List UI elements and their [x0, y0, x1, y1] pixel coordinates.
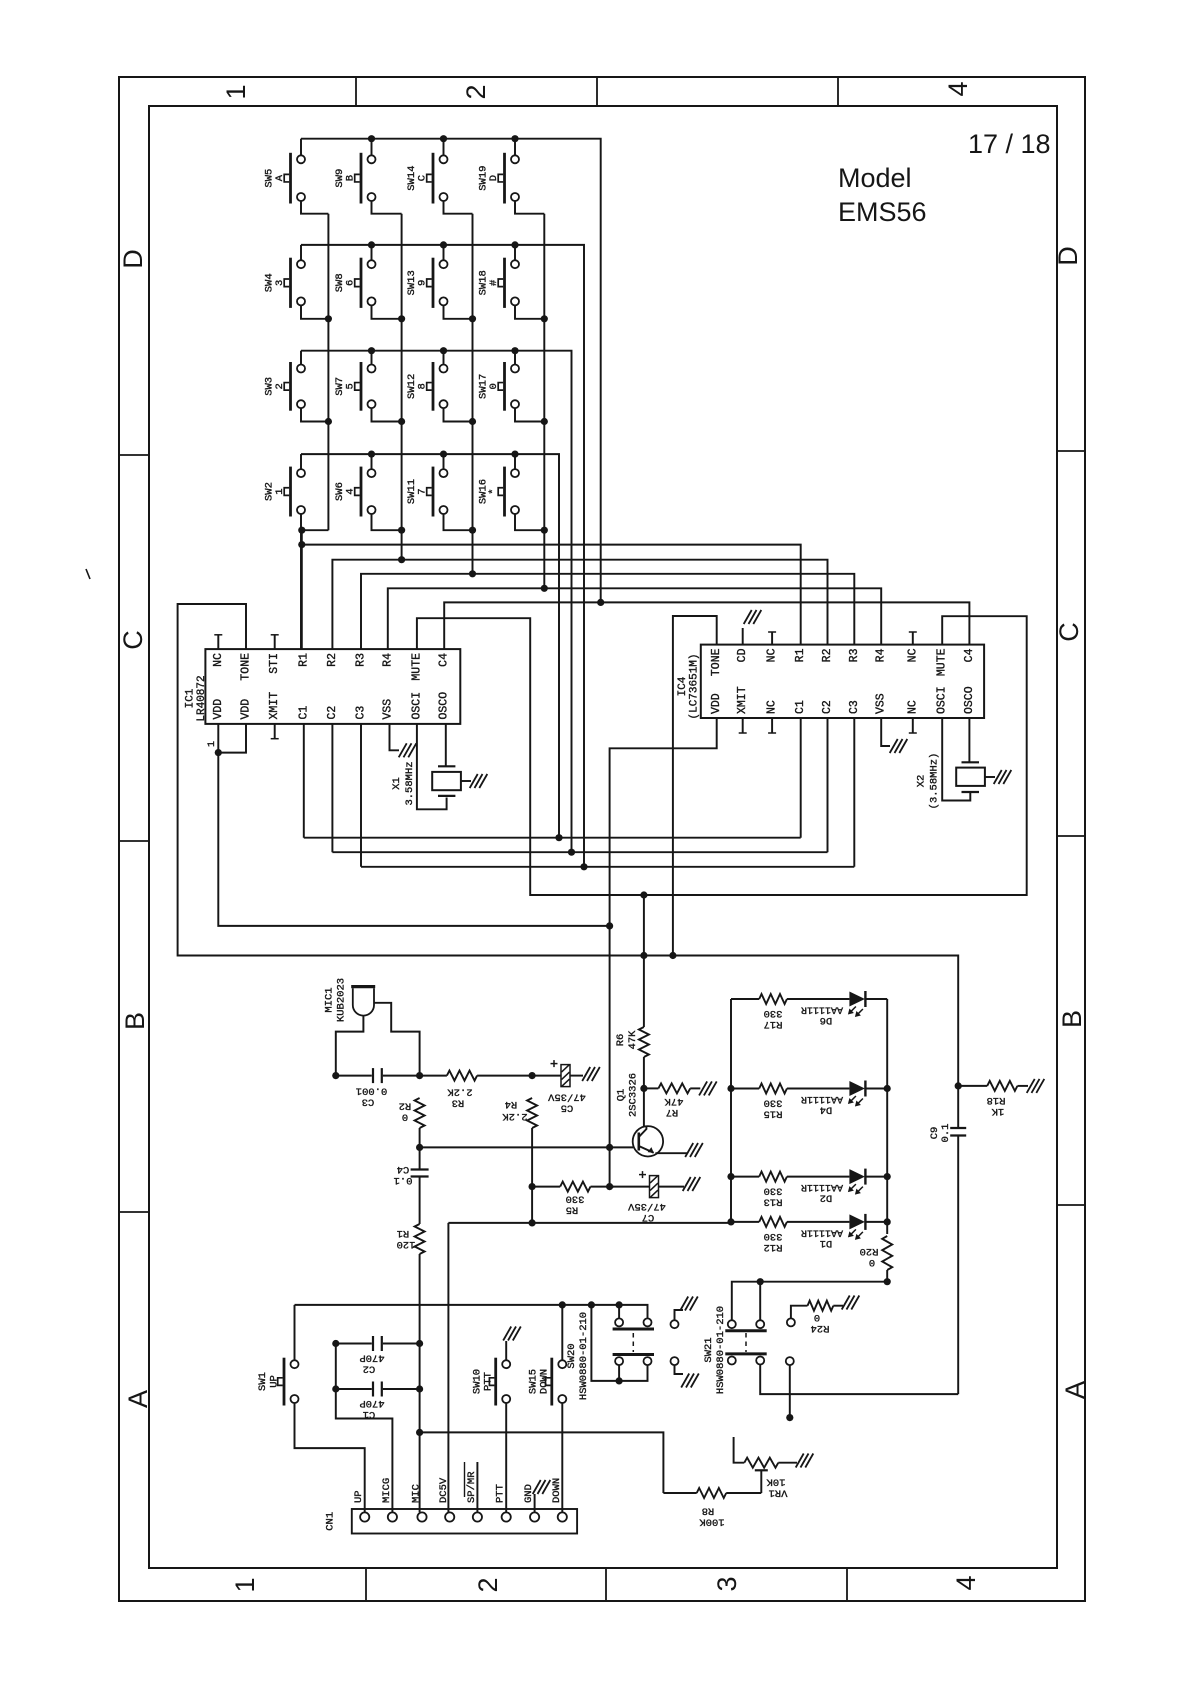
svg-text:UP: UP — [269, 1375, 281, 1388]
svg-text:R4: R4 — [505, 1098, 518, 1110]
svg-text:0.1: 0.1 — [940, 1124, 952, 1143]
wire SP/MR stub — [476, 1462, 478, 1512]
ground C5 — [582, 1067, 590, 1081]
svg-text:R1: R1 — [794, 648, 807, 662]
SP/MR overline — [464, 1462, 466, 1497]
wire SW11 top stub — [443, 454, 445, 469]
wire DC5V down to CN1 — [447, 1223, 449, 1512]
wire SW16 top stub — [514, 454, 516, 469]
connector CN1 body — [352, 1509, 577, 1534]
wire SW8 bottom jog — [372, 306, 402, 319]
SW20 gang link — [632, 1333, 634, 1352]
node C4 bus row1 drop — [597, 599, 604, 606]
node C1 left — [332, 1385, 339, 1392]
wire IC1 VDD pin1 down — [218, 724, 609, 926]
node col2 chain 530 — [398, 527, 405, 534]
node base R2 junction — [416, 1144, 423, 1151]
svg-text:330: 330 — [764, 1230, 783, 1242]
zone tick bottom 3/4 — [846, 1568, 848, 1601]
switch SW14 key C — [440, 155, 448, 163]
node SW12 row bus junction — [440, 347, 447, 354]
wire R1 to CN1 MIC pin — [419, 1254, 421, 1512]
wire SW12 bottom jog — [444, 409, 473, 422]
resistor R6 47K — [643, 895, 645, 1027]
node R4 bus col4 — [541, 585, 548, 592]
node R5 C7 junction — [606, 1183, 613, 1190]
wire R1 bus keypad to IC4 — [302, 545, 801, 645]
wire IC1 C2 leg — [331, 724, 333, 852]
svg-text:5: 5 — [345, 383, 357, 389]
wire IC1 OSCI to X1 — [417, 724, 447, 809]
svg-text:C4: C4 — [963, 648, 976, 662]
ground CN1 GND — [533, 1480, 541, 1494]
node cathode rail — [884, 1218, 891, 1225]
wire DC5V rail to diode row — [448, 1222, 731, 1224]
svg-text:AA1111R: AA1111R — [801, 1004, 843, 1015]
svg-text:A: A — [1060, 1381, 1090, 1399]
svg-text:SP/MR: SP/MR — [466, 1471, 478, 1503]
ground IC1 VSS — [399, 743, 407, 757]
wire SW20 UL stub — [618, 1305, 620, 1318]
node SW13 row bus junction — [440, 241, 447, 248]
wire SW13 bottom jog — [444, 306, 473, 319]
svg-text:VDD: VDD — [240, 699, 253, 720]
svg-text:R3: R3 — [355, 653, 368, 667]
wire R2 bus IC1 to IC4 — [332, 560, 827, 649]
capacitor C4 0.1 — [411, 1168, 429, 1170]
svg-text:NC: NC — [212, 653, 225, 667]
svg-text:X2: X2 — [916, 775, 928, 788]
svg-text:C3: C3 — [355, 706, 368, 720]
node cathode rail — [884, 1085, 891, 1092]
ground SW10 — [503, 1327, 511, 1341]
svg-text:8: 8 — [417, 383, 429, 389]
switch SW17 key 0 — [511, 365, 519, 373]
resistor R18 1K — [958, 1085, 987, 1087]
resistor R1 120 — [415, 1224, 425, 1254]
CN1 pin UP — [360, 1512, 369, 1521]
wire SW12 top stub — [443, 351, 445, 365]
svg-text:IC4: IC4 — [677, 676, 689, 696]
resistor R17 330 — [731, 998, 759, 1000]
wire IC4 C1 leg — [800, 718, 802, 838]
svg-text:470P: 470P — [359, 1397, 384, 1409]
svg-text:R6: R6 — [615, 1034, 627, 1047]
svg-text:IC1: IC1 — [185, 688, 197, 708]
wire IC1 VSS ground stub — [390, 724, 400, 750]
svg-text:R5: R5 — [566, 1204, 579, 1216]
svg-text:1: 1 — [221, 84, 251, 99]
switch SW9 key B — [368, 155, 376, 163]
wire SW11 bottom jog — [444, 514, 473, 530]
node SW20 bottom rail — [616, 1377, 623, 1384]
svg-text:7: 7 — [417, 488, 429, 494]
wire column 4 chain — [543, 214, 545, 531]
wire X1 case ground — [461, 780, 471, 782]
svg-text:(LC73651M): (LC73651M) — [689, 653, 701, 719]
svg-text:3.58MHz: 3.58MHz — [404, 761, 416, 805]
wire SW7 bottom jog — [372, 409, 402, 422]
node MUTE bus R6 branch — [640, 891, 647, 898]
node col1 R1 bus tee — [298, 541, 305, 548]
wire SW19 top stub — [514, 139, 516, 155]
svg-text:2: 2 — [473, 1577, 503, 1592]
svg-text:MIC1: MIC1 — [324, 987, 336, 1012]
svg-text:C: C — [417, 175, 429, 181]
wire col3 chain to R3 bus — [472, 530, 474, 574]
wire MIC1 right terminal — [374, 1003, 420, 1076]
svg-text:B: B — [120, 1012, 150, 1030]
switch SW21 NC contact upper to R24 — [787, 1318, 795, 1326]
wire col4 chain to R4 bus — [543, 530, 545, 588]
VR1 wiper — [755, 1469, 768, 1471]
wire SW1 bottom to CN1 UP — [295, 1403, 365, 1512]
svg-text:100K: 100K — [699, 1516, 725, 1528]
zone tick top 1/2 — [355, 77, 357, 106]
svg-text:VDD: VDD — [212, 699, 225, 720]
wire IC4 OSCI to X2 — [942, 718, 970, 801]
svg-text:2.2K: 2.2K — [447, 1086, 473, 1098]
wire col1 chain jog — [301, 529, 328, 531]
switch SW6 key 4 — [368, 469, 376, 477]
svg-text:0: 0 — [402, 1111, 408, 1123]
svg-text:C1: C1 — [297, 706, 310, 720]
wire SW13 top stub — [443, 245, 445, 260]
ground R18 — [1027, 1079, 1035, 1093]
switch SW2 key 1 — [297, 469, 305, 477]
node anode rail — [727, 1173, 734, 1180]
switch SW4 key 3 — [297, 260, 305, 268]
svg-text:2: 2 — [461, 84, 491, 99]
switch SW11 key 7 — [440, 469, 448, 477]
capacitor C9 0.1 — [957, 1086, 959, 1128]
svg-text:B: B — [345, 175, 357, 181]
ground R24 — [842, 1296, 850, 1310]
svg-text:OSCI: OSCI — [410, 692, 423, 720]
node col3 chain 530 — [469, 527, 476, 534]
svg-text:AA1111R: AA1111R — [801, 1226, 843, 1237]
svg-text:#: # — [488, 280, 500, 286]
IC4 pin NC2 bottom stub — [912, 718, 914, 733]
wire IC4 C3 leg — [853, 718, 855, 867]
potentiometer VR1 10K — [734, 1437, 745, 1463]
svg-text:VSS: VSS — [381, 699, 394, 720]
svg-text:MICG: MICG — [381, 1478, 393, 1503]
wire R5 node line — [532, 1186, 560, 1188]
node R4 D1 row junction — [529, 1219, 536, 1226]
svg-text:C3: C3 — [362, 1096, 375, 1108]
svg-text:CN1: CN1 — [325, 1512, 337, 1531]
svg-text:R8: R8 — [702, 1505, 715, 1517]
node C1 right — [416, 1385, 423, 1392]
node VDD bus vertical tee — [606, 922, 613, 929]
node C3 bus row2 drop — [580, 863, 587, 870]
svg-text:PTT: PTT — [495, 1484, 507, 1503]
svg-text:MUTE: MUTE — [936, 648, 949, 676]
svg-text:330: 330 — [764, 1097, 783, 1109]
svg-text:1: 1 — [274, 488, 286, 494]
switch SW20 NC contact upper — [671, 1320, 679, 1328]
capacitor C1 470P — [372, 1382, 374, 1397]
switch SW13 key 9 — [440, 260, 448, 268]
op-amp IC1 LR40872 body — [205, 649, 460, 724]
zone tick top 2/3 — [596, 77, 598, 106]
node SW16 row bus junction — [511, 451, 518, 458]
svg-text:R2: R2 — [326, 653, 339, 667]
node SW20 left leg — [588, 1301, 595, 1308]
switch SW18 key # — [511, 260, 519, 268]
wire SW18 bottom jog — [515, 306, 544, 319]
svg-text:SW1: SW1 — [257, 1372, 269, 1391]
node SW21 UR leg — [757, 1278, 764, 1285]
svg-text:CD: CD — [736, 648, 749, 662]
svg-text:330: 330 — [764, 1185, 783, 1197]
svg-text:4: 4 — [345, 488, 357, 494]
node R4 R5 junction — [529, 1183, 536, 1190]
wire SW5 top stub — [300, 139, 302, 155]
wire column 2 chain — [401, 214, 403, 531]
svg-text:C: C — [118, 630, 148, 650]
wire SW17 top stub — [514, 351, 516, 365]
wire Q1 base line — [420, 1146, 634, 1148]
svg-text:470P: 470P — [359, 1352, 384, 1364]
svg-text:UP: UP — [353, 1490, 365, 1503]
wire SW17 bottom jog — [515, 409, 544, 422]
node SW21 NC lower end — [786, 1414, 793, 1421]
svg-text:R3: R3 — [452, 1097, 465, 1109]
node IC1 VDD junction — [215, 749, 222, 756]
node R2 bus col2 — [398, 556, 405, 563]
IC1 pin STI stub — [274, 635, 276, 649]
wire IC1 C1 leg — [303, 724, 305, 838]
node MIC bias tee — [416, 1429, 423, 1436]
switch SW5 key A — [297, 155, 305, 163]
svg-text:C: C — [1054, 622, 1084, 642]
IC4 pin NC2 top stub — [912, 632, 914, 645]
svg-text:SW20: SW20 — [566, 1343, 578, 1368]
node cathode rail — [884, 1173, 891, 1180]
zone tick right B/A — [1057, 1204, 1085, 1206]
svg-text:4: 4 — [951, 1575, 981, 1590]
node R20 bottom — [884, 1278, 891, 1285]
wire SW21 select line — [732, 1282, 887, 1320]
border outer frame — [119, 77, 1085, 1601]
svg-text:DOWN: DOWN — [539, 1369, 551, 1394]
svg-text:TONE: TONE — [240, 653, 253, 681]
switch SW8 key 6 — [368, 260, 376, 268]
wire SW18 top stub — [514, 245, 516, 260]
IC1 pin NC stub — [217, 635, 219, 649]
wire SW20 LL stub — [618, 1365, 620, 1381]
switch SW10 PTT — [502, 1360, 510, 1368]
switch SW20 HSW0880-01-210 upper pole — [615, 1318, 623, 1326]
wire column 1 chain — [327, 214, 329, 531]
svg-text:9: 9 — [417, 280, 429, 286]
svg-text:PTT: PTT — [483, 1372, 495, 1391]
svg-text:R1: R1 — [297, 653, 310, 667]
zone tick top 3/4 — [837, 77, 839, 106]
zone tick right C/B — [1057, 835, 1085, 837]
wire GND pin stub — [534, 1494, 536, 1512]
ground VR1 — [796, 1454, 804, 1468]
svg-text:AA1111R: AA1111R — [801, 1181, 843, 1192]
resistor R2 0 — [415, 1098, 425, 1128]
wire diode cathode rail — [886, 999, 888, 1234]
wire MICG column — [336, 1344, 393, 1513]
zone tick bottom 1/2 — [365, 1568, 367, 1601]
svg-text:R13: R13 — [764, 1196, 783, 1208]
wire SW15 top to bus — [561, 1305, 563, 1360]
resistor R3 2.2K — [447, 1071, 477, 1081]
wire C2 bus below ICs — [332, 851, 827, 853]
svg-text:2.2K: 2.2K — [502, 1110, 528, 1122]
node collector R7 tee — [640, 1085, 647, 1092]
wire R4 to R5 node — [531, 1128, 533, 1223]
wire SW3 bottom jog — [301, 409, 328, 422]
svg-text:R4: R4 — [381, 653, 394, 667]
svg-text:MUTE: MUTE — [410, 653, 423, 681]
svg-text:R2: R2 — [821, 648, 834, 662]
wire SW15 bottom to CN1 DOWN — [561, 1403, 563, 1512]
node SW14 row bus junction — [440, 135, 447, 142]
resistor R12 330 — [731, 1221, 759, 1223]
wire SW10 bottom to CN1 PTT — [505, 1403, 507, 1512]
svg-text:OSCO: OSCO — [963, 686, 976, 714]
node C2 right — [416, 1340, 423, 1347]
svg-text:17 / 18: 17 / 18 — [968, 129, 1051, 159]
svg-text:4: 4 — [943, 81, 973, 96]
node R3 bus col3 — [469, 570, 476, 577]
zone tick left B/A — [119, 1211, 149, 1213]
svg-text:1K: 1K — [991, 1105, 1004, 1117]
node anode rail — [727, 1218, 734, 1225]
wire SW8 top stub — [371, 245, 373, 260]
wire col2 chain to R2 bus — [401, 530, 403, 560]
ground C7 — [683, 1177, 691, 1191]
svg-text:D: D — [118, 249, 148, 269]
node SW15 top — [559, 1301, 566, 1308]
node MICG C3 left — [332, 1072, 339, 1079]
svg-text:Q1: Q1 — [616, 1089, 628, 1102]
wire MIC bias line — [420, 1432, 664, 1493]
svg-text:C1: C1 — [794, 700, 807, 714]
transistor Q1 2SC3326 — [633, 1126, 663, 1156]
svg-text:VSS: VSS — [875, 693, 888, 714]
CN1 pin DC5V — [445, 1512, 454, 1521]
svg-text:X1: X1 — [391, 777, 403, 790]
wire IC1 C3 leg — [360, 724, 362, 867]
svg-text:NC: NC — [906, 700, 919, 714]
svg-text:DC5V: DC5V — [438, 1477, 450, 1503]
wire SW5 bottom jog — [301, 201, 328, 213]
switch SW7 key 5 — [368, 365, 376, 373]
keypad row bus 3 — [301, 351, 572, 853]
switch SW21 NC contact lower — [786, 1357, 794, 1365]
resistor R24 0 — [808, 1301, 834, 1311]
wire IC4 OSCO to X2 — [968, 718, 970, 762]
wire audio node C3/R3 — [336, 1075, 372, 1077]
svg-text:NC: NC — [766, 700, 779, 714]
switch SW19 key D — [511, 155, 519, 163]
svg-text:R18: R18 — [987, 1094, 1006, 1106]
wire SW21 LR to right rail — [760, 1365, 958, 1394]
svg-text:*: * — [488, 488, 500, 494]
wire SW20 left leg — [591, 1305, 647, 1381]
wire SW7 top stub — [371, 351, 373, 365]
svg-text:R4: R4 — [875, 648, 888, 662]
svg-text:0: 0 — [488, 383, 500, 389]
node VDD Q1 base crossing — [606, 1144, 613, 1151]
zone tick left C/B — [119, 840, 149, 842]
svg-text:330: 330 — [566, 1193, 585, 1205]
svg-text:0.1: 0.1 — [394, 1174, 413, 1186]
svg-text:R7: R7 — [666, 1106, 679, 1118]
svg-text:C7: C7 — [642, 1211, 655, 1223]
wire IC1 R1 pin drop — [301, 530, 303, 649]
switch SW12 key 8 — [440, 365, 448, 373]
capacitor C2 470P — [372, 1336, 374, 1351]
wire R4 bus IC1 to IC4 — [388, 588, 881, 649]
ground R7 — [699, 1081, 707, 1095]
svg-text:C3: C3 — [848, 700, 861, 714]
node R4 C5 junction — [529, 1072, 536, 1079]
svg-text:STI: STI — [268, 653, 281, 674]
wire SW4 bottom jog — [301, 306, 328, 319]
svg-text:Model: Model — [838, 163, 912, 193]
node col1 530 — [298, 527, 305, 534]
LED D4 AA1111R — [849, 1081, 865, 1096]
IC4 pin XMIT stub — [742, 718, 744, 733]
zone tick bottom 2/3 — [605, 1568, 607, 1601]
wire MIC1 left terminal — [336, 1016, 364, 1076]
wire IC4 VDD loop — [610, 718, 717, 1187]
svg-text:R1: R1 — [397, 1227, 410, 1239]
resistor R13 330 — [731, 1176, 759, 1178]
svg-text:HSW0880-01-210: HSW0880-01-210 — [578, 1312, 590, 1400]
resistor R7 47K — [644, 1087, 659, 1089]
svg-text:LR40872: LR40872 — [196, 675, 208, 721]
svg-text:D2: D2 — [820, 1192, 833, 1204]
op-amp IC4 LC73651M body — [701, 645, 984, 718]
CN1 pin DOWN — [558, 1512, 567, 1521]
resistor R20 0 — [882, 1236, 892, 1270]
svg-text:TONE: TONE — [710, 648, 723, 676]
wire SW2 top stub — [300, 454, 302, 469]
svg-text:VDD: VDD — [710, 693, 723, 714]
wire IC1 OSCO to X1 — [445, 724, 447, 766]
ground X1 case — [470, 774, 478, 788]
resistor R5 330 — [560, 1182, 590, 1192]
switch SW3 key 2 — [297, 365, 305, 373]
svg-text:OSCI: OSCI — [936, 686, 949, 714]
svg-text:A: A — [123, 1390, 153, 1408]
node C1 bus row4 drop — [555, 834, 562, 841]
svg-text:XMIT: XMIT — [268, 692, 281, 720]
node col4 chain junction — [541, 418, 548, 425]
svg-text:R20: R20 — [860, 1245, 879, 1257]
CN1 pin MIC — [417, 1512, 426, 1521]
resistor R4 2.2K — [527, 1098, 537, 1128]
capacitor C7 47/35V electrolytic — [650, 1176, 659, 1198]
svg-text:VR1: VR1 — [769, 1487, 788, 1499]
wire SW19 bottom jog — [515, 201, 544, 213]
LED D1 AA1111R — [849, 1214, 865, 1229]
switch SW1 UP — [291, 1360, 299, 1368]
svg-text:R15: R15 — [764, 1108, 783, 1120]
node col4 chain 530 — [541, 527, 548, 534]
svg-text:C4: C4 — [397, 1163, 410, 1175]
wire IC4 VSS ground stub — [881, 718, 890, 746]
